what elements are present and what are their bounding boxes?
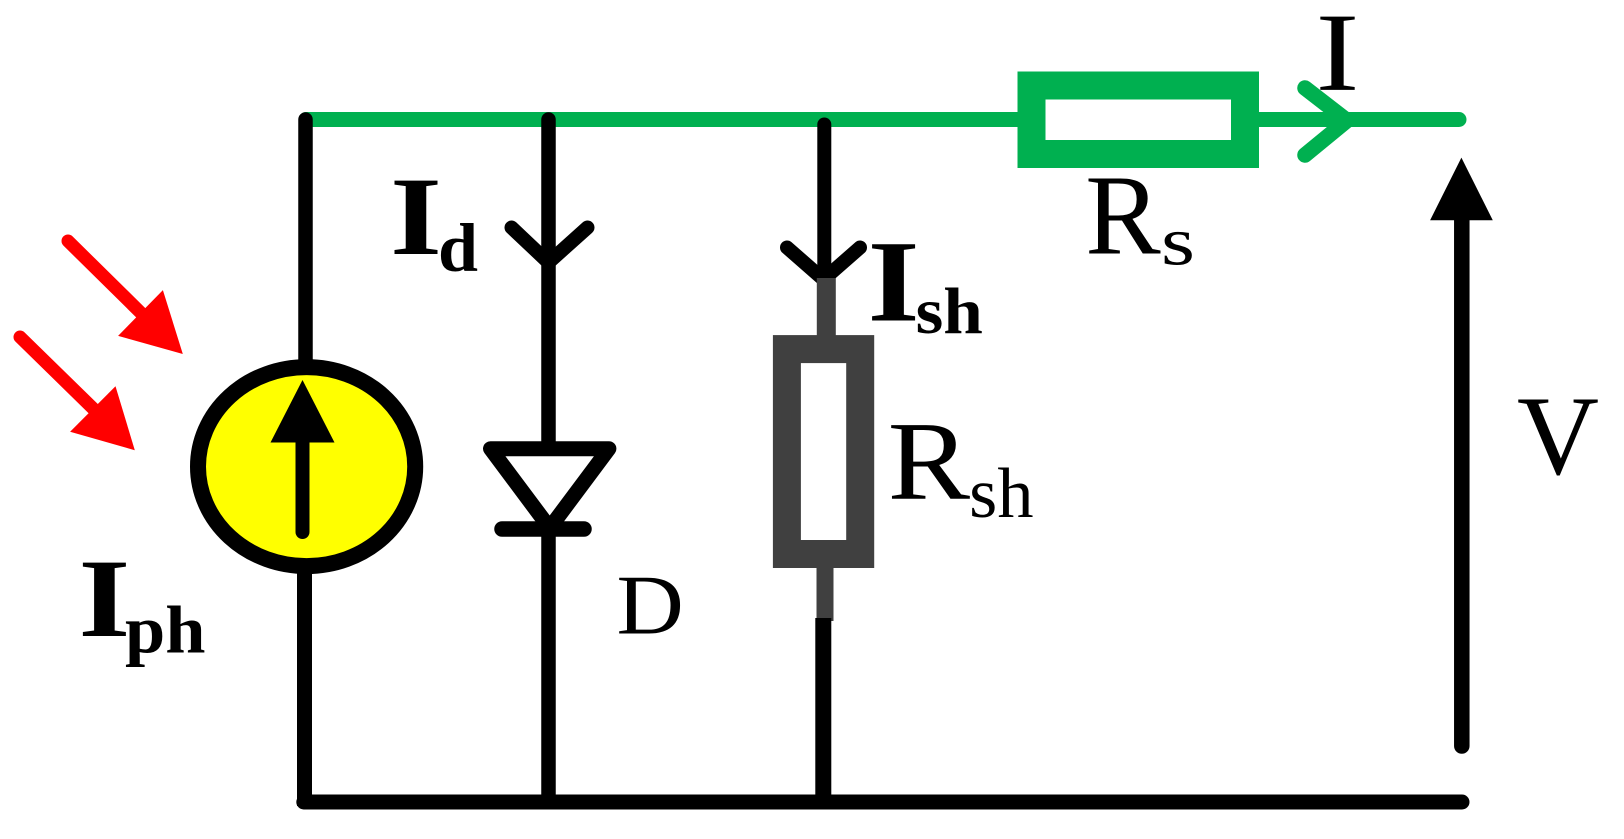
- svg-text:R: R: [1085, 152, 1160, 279]
- light arrow 2 (red, lower) shaft: [20, 337, 93, 409]
- wire: bottom node (black): [304, 795, 1462, 810]
- current arrow I (green chevron on output wire): [1305, 88, 1347, 155]
- svg-text:D: D: [617, 560, 684, 653]
- current source arrow head: [271, 380, 335, 443]
- svg-text:R: R: [888, 400, 971, 524]
- current arrow Ish (black chevron): [787, 248, 860, 280]
- current arrow Id (black chevron): [512, 228, 588, 263]
- wire: left branch above current source: [298, 120, 313, 369]
- wire: diode branch lower: [541, 529, 556, 806]
- current source U1 circle (photocurrent source): [198, 367, 415, 566]
- current source arrow (up) shaft: [296, 436, 310, 532]
- svg-text:I: I: [868, 218, 920, 347]
- voltage arrow V head: [1430, 158, 1493, 221]
- wire: shunt branch upper (black): [817, 125, 831, 277]
- svg-text:sh: sh: [969, 455, 1033, 533]
- wire: gray stub below Rsh: [817, 560, 834, 621]
- wire: top node (green) from left corner to output terminal: [306, 112, 1459, 127]
- svg-text:V: V: [1517, 374, 1599, 499]
- resistor R1 Rs (series, green): [1032, 86, 1246, 155]
- light arrow 2 head: [70, 386, 135, 450]
- svg-text:d: d: [438, 210, 478, 286]
- svg-text:s: s: [1161, 204, 1195, 280]
- light arrow 1 (red, upper) shaft: [68, 241, 141, 313]
- svg-text:sh: sh: [916, 275, 983, 348]
- diode D1 triangle: [491, 449, 609, 528]
- wire: left branch below current source: [297, 566, 312, 806]
- resistor R2 Rsh (shunt, dark gray): [787, 349, 860, 554]
- svg-text:ph: ph: [125, 593, 206, 668]
- wire: diode branch upper: [541, 120, 556, 453]
- diode D1 cathode bar: [502, 521, 584, 537]
- wire: shunt branch lower (black): [815, 618, 831, 806]
- svg-text:I: I: [1316, 0, 1360, 115]
- svg-text:I: I: [78, 537, 130, 661]
- light arrow 1 head: [118, 290, 183, 354]
- svg-text:I: I: [390, 155, 442, 279]
- wire: gray stub above Rsh: [817, 278, 836, 340]
- voltage arrow V shaft: [1454, 215, 1470, 746]
